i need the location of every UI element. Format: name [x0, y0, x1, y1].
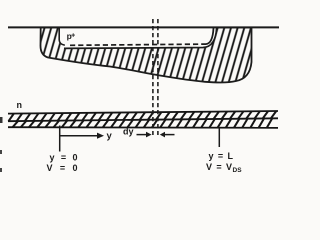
svg-text:+: +	[71, 32, 75, 39]
svg-text:y = L: y = L	[209, 151, 234, 161]
svg-text:V = V: V = V	[206, 162, 232, 172]
svg-text:dy: dy	[123, 127, 134, 137]
svg-text:DS: DS	[233, 167, 243, 174]
svg-text:y = 0: y = 0	[50, 153, 78, 163]
svg-text:V = 0: V = 0	[47, 163, 78, 173]
svg-text:y: y	[107, 131, 113, 142]
svg-text:n: n	[17, 100, 23, 110]
